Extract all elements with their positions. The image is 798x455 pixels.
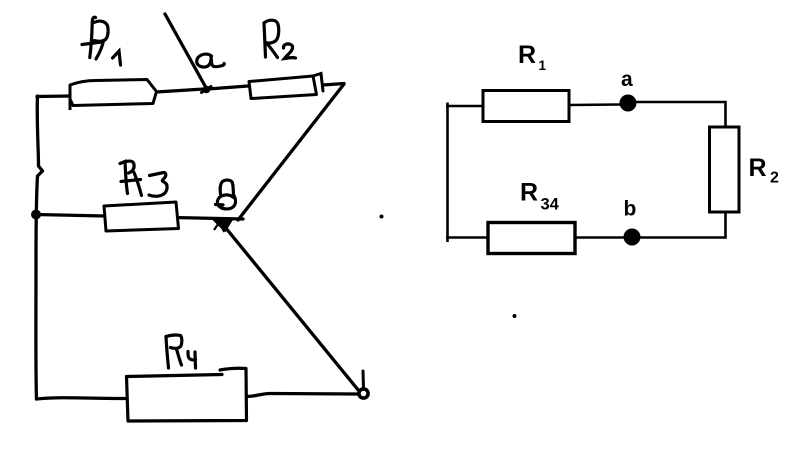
stray dot mark 2 [513,314,517,318]
wire: R34 to left vertical [446,236,488,239]
label R2 (handwritten) [264,20,296,58]
svg-text:R: R [518,41,536,69]
wire: node a to top-right corner and down to R2 [636,102,726,127]
wire: diagonal from R2 stub down to node b [238,84,344,220]
node b (hand-drawn junction scribble) [213,219,232,231]
wire: top-left horizontal to R1 [37,94,70,98]
svg-text:1: 1 [539,58,547,73]
label R34 (clean) [520,179,560,214]
label b (handwritten, node b) [216,180,236,209]
svg-text:b: b [624,198,637,221]
wire: left vertical (clean circuit) [446,103,449,243]
svg-text:2: 2 [770,170,779,187]
node b (clean, filled dot) [624,229,641,246]
label R4 (handwritten) [166,335,196,368]
resistor R34 (clean box) [488,223,575,254]
wire: R1 to node a [570,103,620,106]
resistor R2 (clean vertical box) [710,127,740,212]
wire: node b to R34 [576,236,624,239]
wire: left vertical bus (hand-drawn circuit) [36,96,43,399]
label R2 (clean) [749,154,780,187]
stray dot mark 1 [380,215,384,219]
resistor R1 (clean box) [483,91,569,122]
wire: node a to R2 left terminal [208,86,248,89]
svg-text:a: a [621,68,633,91]
svg-text:R: R [520,179,538,207]
resistor R4 (hand-drawn box) [127,368,247,421]
wire: bottom horizontal left of R4 [37,398,126,399]
node a (clean, filled dot) [620,95,637,112]
svg-text:R: R [749,154,767,182]
label R1 (handwritten) [82,17,121,65]
resistor R2 (hand-drawn box) [249,74,323,99]
label R1 (clean) [518,41,547,73]
node a (hand-drawn junction dot) [202,86,212,94]
resistor R3 (hand-drawn box) [104,202,179,231]
wire: R2 bottom to bottom-right corner to node b [640,212,726,238]
wire: horizontal through R3 from left bus to node b [36,215,243,220]
wire: diagonal stroke into node a from top [165,14,207,90]
wire: R1 right terminal to node a [156,89,204,92]
wire: top-left to R1 [446,105,482,108]
label R3 (handwritten) [120,161,167,196]
wire: bottom horizontal right of R4 [247,394,358,397]
wire: diagonal from node b to bottom-right node [225,227,359,391]
bottom-right node (small circle with tick) [359,371,368,398]
wire: R2 right terminal stub [323,84,344,86]
label a (handwritten, node a) [197,54,224,67]
resistor R1 (hand-drawn box) [70,80,157,111]
left node dot (junction on left bus) [31,210,41,220]
svg-text:34: 34 [541,196,560,214]
